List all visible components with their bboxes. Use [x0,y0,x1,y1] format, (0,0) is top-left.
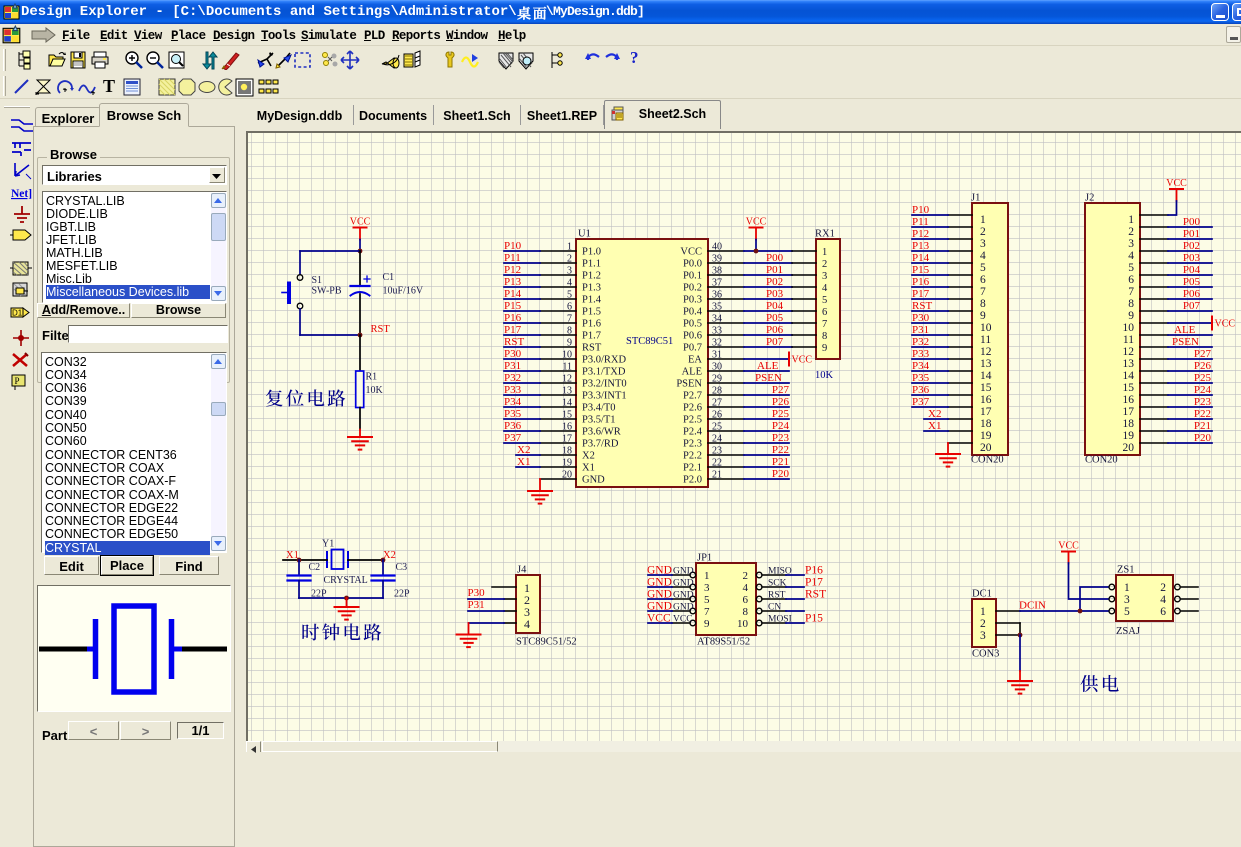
svg-text:3: 3 [822,271,827,282]
svg-text:6: 6 [1128,274,1134,286]
svg-text:P0.1: P0.1 [683,271,702,282]
svg-text:7: 7 [822,319,827,330]
svg-text:P26: P26 [772,396,790,408]
svg-text:34: 34 [712,314,722,325]
svg-text:2: 2 [822,259,827,270]
svg-text:P21: P21 [772,456,789,468]
svg-text:10: 10 [562,350,572,361]
svg-text:5: 5 [1128,262,1134,274]
svg-text:STC89C51: STC89C51 [626,336,673,347]
svg-text:10: 10 [1123,322,1135,334]
svg-text:P15: P15 [912,264,930,276]
svg-text:RST: RST [768,591,786,601]
svg-text:P22: P22 [1194,408,1211,420]
svg-text:J4: J4 [517,565,527,576]
svg-text:GND: GND [647,589,672,601]
svg-text:D1: D1 [12,309,23,318]
svg-text:P31: P31 [912,324,929,336]
svg-text:P07: P07 [766,336,784,348]
wires U1 right nets P00-P07 [744,263,792,347]
net labels J1 [912,204,941,432]
svg-text:P1.7: P1.7 [582,331,601,342]
junction clock gnd [344,596,349,601]
svg-text:P0.3: P0.3 [683,295,702,306]
svg-text:38: 38 [712,266,722,277]
svg-text:14: 14 [980,370,992,382]
wires J1 left nets [912,215,948,431]
svg-text:P00: P00 [766,252,784,264]
svg-text:P31: P31 [504,360,521,372]
svg-text:X2: X2 [517,444,530,456]
wire VCC junction to S1 top [300,250,360,252]
svg-text:P0.0: P0.0 [683,259,702,270]
svg-text:32: 32 [712,338,722,349]
svg-text:7: 7 [567,314,572,325]
svg-text:7: 7 [980,286,986,298]
svg-text:P34: P34 [504,396,522,408]
svg-text:18: 18 [562,446,572,457]
svg-text:P37: P37 [504,432,522,444]
wire C2 to C3 bottom [299,597,383,599]
switch S1 (SW-PB) [282,275,342,309]
svg-text:P11: P11 [504,252,521,264]
junction node VCC/S1/C1 [358,249,363,254]
ground (J1 pin20) [947,443,949,454]
svg-text:P14: P14 [504,288,522,300]
svg-text:5: 5 [704,594,710,606]
svg-text:16: 16 [1123,394,1135,406]
svg-text:P20: P20 [772,468,790,480]
svg-text:20: 20 [562,470,572,481]
svg-text:VCC: VCC [673,615,693,625]
svg-text:29: 29 [712,374,722,385]
svg-text:11: 11 [562,362,572,373]
connector DC1 CON3 [972,589,999,660]
svg-text:P34: P34 [912,360,930,372]
wire J4 pin2 net P30 [468,598,504,600]
svg-text:23: 23 [712,446,722,457]
svg-text:P3.2/INT0: P3.2/INT0 [582,379,627,390]
junction DCIN/ZS1 [1078,609,1083,614]
svg-text:P04: P04 [1183,264,1201,276]
svg-text:P22: P22 [772,444,789,456]
svg-text:P2.1: P2.1 [683,463,702,474]
svg-text:P1.4: P1.4 [582,295,602,306]
svg-text:39: 39 [712,254,722,265]
resistor network RX1 10K [815,229,840,382]
power VCC (supply area) [1058,541,1079,564]
svg-text:P33: P33 [504,384,522,396]
J4 pins 1-4 [492,581,530,631]
svg-text:P13: P13 [504,276,522,288]
svg-text:ALE: ALE [682,367,702,378]
svg-text:Net]: Net] [11,188,32,200]
svg-text:C3: C3 [396,562,408,573]
svg-text:AT89S51/52: AT89S51/52 [697,637,750,648]
U1 pins 40-21 (right) with numbers and names [676,242,744,486]
resistor R1 10K [356,335,384,430]
svg-text:P16: P16 [504,312,522,324]
node RST junction [358,333,363,338]
svg-text:J1: J1 [971,193,980,204]
svg-text:18: 18 [1123,418,1135,430]
svg-text:P17: P17 [805,577,823,589]
svg-text:3: 3 [567,266,572,277]
svg-text:6: 6 [567,302,572,313]
net labels U1 left [504,240,530,468]
svg-text:P11: P11 [912,216,929,228]
svg-text:P3.0/RXD: P3.0/RXD [582,355,626,366]
svg-text:P07: P07 [1183,300,1201,312]
U1 GND pin wire and ground [539,479,541,491]
capacitor C2 22P [288,560,328,600]
power VCC (J2 pin1) [1166,178,1187,201]
capacitor C1 10uF/16V [351,251,424,335]
svg-text:21: 21 [712,470,722,481]
svg-text:PSEN: PSEN [755,372,782,384]
svg-text:P33: P33 [912,348,930,360]
svg-text:13: 13 [980,358,992,370]
svg-text:P25: P25 [772,408,790,420]
ground (DC1) [1008,680,1032,682]
svg-text:5: 5 [567,290,572,301]
svg-text:18: 18 [980,418,992,430]
svg-text:7: 7 [704,606,710,618]
svg-text:RST: RST [805,589,826,601]
svg-text:20: 20 [980,442,992,454]
text 时钟电路 [302,624,319,641]
svg-text:P06: P06 [766,324,784,336]
connector J4 STC89C51/52 [516,565,577,648]
svg-text:P0.4: P0.4 [683,307,703,318]
svg-text:P03: P03 [766,288,784,300]
wire crystal to X2 node [348,559,383,561]
svg-text:GND: GND [673,567,694,577]
power VCC (reset) [350,217,371,252]
svg-text:P31: P31 [468,599,485,611]
svg-text:P30: P30 [912,312,930,324]
svg-text:GND: GND [582,475,605,486]
svg-text:8: 8 [980,298,986,310]
svg-text:JP1: JP1 [697,553,712,564]
switch ZS1 ZSAJ [1116,565,1173,638]
svg-text:P0.6: P0.6 [683,331,702,342]
svg-text:10K: 10K [366,385,384,396]
svg-text:35: 35 [712,302,722,313]
svg-text:19: 19 [562,458,572,469]
svg-text:33: 33 [712,326,722,337]
svg-text:P23: P23 [772,432,790,444]
svg-text:P06: P06 [1183,288,1201,300]
svg-text:2: 2 [567,254,572,265]
svg-text:4: 4 [524,617,530,631]
svg-text:16: 16 [562,422,572,433]
svg-text:GND: GND [673,579,694,589]
svg-text:Y1: Y1 [322,539,334,550]
svg-text:6: 6 [980,274,986,286]
svg-text:10: 10 [980,322,992,334]
svg-text:CN: CN [768,603,781,613]
svg-text:13: 13 [562,386,572,397]
svg-text:17: 17 [562,434,572,445]
svg-text:1: 1 [567,242,572,253]
svg-text:CON20: CON20 [1085,455,1118,466]
svg-text:10uF/16V: 10uF/16V [383,286,424,297]
svg-text:X2: X2 [928,408,941,420]
svg-text:P30: P30 [468,587,486,599]
ground (reset) [359,430,361,438]
J1 pins 1-20 [948,214,992,454]
svg-text:27: 27 [712,398,722,409]
svg-text:17: 17 [1123,406,1135,418]
svg-text:P16: P16 [912,276,930,288]
svg-text:RST: RST [371,324,391,335]
wire DC1 pin2 down to pin3 row [1019,623,1021,635]
svg-text:P2.6: P2.6 [683,403,702,414]
wire X1 node to crystal [283,559,327,561]
JP1 left pins 1,3,5,7,9 [672,567,710,630]
svg-text:C1: C1 [383,272,395,283]
svg-text:7: 7 [1128,286,1134,298]
svg-text:VCC: VCC [1058,541,1079,552]
svg-text:1: 1 [1128,214,1134,226]
U1 pins 1-20 (left) with numbers and names [540,242,627,486]
ZS1 pins 1,3,5 (left) [1109,582,1130,618]
svg-text:ZSAJ: ZSAJ [1116,626,1140,637]
svg-text:8: 8 [1128,298,1134,310]
svg-text:12: 12 [562,374,572,385]
svg-text:P2.0: P2.0 [683,475,702,486]
svg-text:CRYSTAL: CRYSTAL [324,575,368,586]
svg-text:P0.7: P0.7 [683,343,702,354]
power VCC (U1 pin40) [746,217,767,252]
svg-text:28: 28 [712,386,722,397]
svg-text:P17: P17 [504,324,522,336]
svg-text:ALE: ALE [1174,324,1196,336]
svg-text:P1.0: P1.0 [582,247,601,258]
svg-text:VCC: VCC [792,355,813,366]
svg-text:P10: P10 [504,240,522,252]
svg-text:P00: P00 [1183,216,1201,228]
svg-text:P02: P02 [766,276,783,288]
svg-text:P26: P26 [1194,360,1212,372]
svg-text:3: 3 [980,630,986,642]
net labels J2 P00-P07 [1183,216,1201,312]
svg-text:6: 6 [743,594,749,606]
text 复位电路 [266,389,283,406]
svg-text:RST: RST [504,336,524,348]
svg-text:3: 3 [704,582,710,594]
svg-text:8: 8 [743,606,749,618]
svg-text:9: 9 [1128,310,1134,322]
svg-text:P05: P05 [1183,276,1201,288]
svg-text:ALE: ALE [757,360,779,372]
svg-text:4: 4 [980,250,986,262]
wire J4 pin3 net P31 [468,610,504,612]
wire DCIN net DC1 pin1 to ZS1 pin5 [1020,610,1109,612]
svg-text:P05: P05 [766,312,784,324]
svg-text:22P: 22P [394,589,410,600]
svg-text:P32: P32 [912,336,929,348]
wire U1 VCC pin40 to RX1 pin1 [744,250,792,252]
svg-text:40: 40 [712,242,722,253]
svg-text:31: 31 [712,350,722,361]
svg-text:P1.1: P1.1 [582,259,601,270]
svg-text:3: 3 [1124,594,1130,606]
svg-text:1: 1 [980,214,986,226]
power VCC (J2 pin10) [1211,317,1213,330]
svg-text:P2.3: P2.3 [683,439,702,450]
JP1 right pins 2,4,6,8,10 [737,567,792,630]
svg-text:P0.5: P0.5 [683,319,702,330]
net labels J2 P27-P20 [1194,348,1212,444]
svg-text:P01: P01 [766,264,783,276]
connector J2 CON20 [1085,193,1140,466]
svg-text:RST: RST [912,300,932,312]
svg-text:13: 13 [1123,358,1135,370]
svg-text:15: 15 [1123,382,1135,394]
svg-text:J2: J2 [1085,193,1094,204]
svg-text:10: 10 [737,618,749,630]
wires JP1 left nets GND/VCC [647,565,672,625]
svg-text:37: 37 [712,278,722,289]
svg-text:16: 16 [980,394,992,406]
svg-text:RX1: RX1 [815,229,835,240]
svg-text:8: 8 [822,331,827,342]
svg-text:22: 22 [712,458,722,469]
svg-text:9: 9 [704,618,710,630]
crystal Y1 [322,539,368,587]
svg-text:PSEN: PSEN [676,379,702,390]
svg-text:25: 25 [712,422,722,433]
svg-text:GND: GND [647,565,672,577]
svg-text:17: 17 [980,406,992,418]
wires U1 left nets P10-P37 [504,251,540,467]
svg-text:C2: C2 [309,562,321,573]
svg-text:P1.6: P1.6 [582,319,601,330]
svg-text:P04: P04 [766,300,784,312]
svg-text:4: 4 [1128,250,1134,262]
svg-text:P32: P32 [504,372,521,384]
svg-text:P12: P12 [912,228,929,240]
svg-text:P24: P24 [772,420,790,432]
svg-text:P02: P02 [1183,240,1200,252]
svg-text:19: 19 [980,430,992,442]
svg-text:DCIN: DCIN [1019,600,1046,612]
ground (J4) [457,634,481,636]
svg-text:P37: P37 [912,396,930,408]
svg-text:P30: P30 [504,348,522,360]
svg-text:GND: GND [673,603,694,613]
svg-text:5: 5 [980,262,986,274]
svg-text:4: 4 [743,582,749,594]
svg-text:P27: P27 [772,384,790,396]
svg-text:X2: X2 [582,451,595,462]
svg-text:30: 30 [712,362,722,373]
IC U1 STC89C51 [576,229,708,488]
svg-text:2: 2 [980,226,986,238]
junction X2/C3 [381,558,386,563]
svg-text:P24: P24 [1194,384,1212,396]
svg-text:5: 5 [822,295,827,306]
svg-text:11: 11 [980,334,991,346]
svg-text:VCC: VCC [680,247,702,258]
svg-text:P12: P12 [504,264,521,276]
svg-text:P3.1/TXD: P3.1/TXD [582,367,626,378]
svg-text:P01: P01 [1183,228,1200,240]
svg-text:14: 14 [1123,370,1135,382]
svg-text:P2.7: P2.7 [683,391,702,402]
svg-text:P25: P25 [1194,372,1212,384]
svg-text:R1: R1 [366,372,378,383]
svg-text:VCC: VCC [1166,178,1187,189]
svg-text:2: 2 [980,618,986,630]
svg-text:4: 4 [822,283,828,294]
svg-text:P15: P15 [504,300,522,312]
svg-text:P2.5: P2.5 [683,415,702,426]
junction VCC/pin40 [754,249,759,254]
svg-text:14: 14 [562,398,572,409]
svg-text:VCC: VCC [746,217,767,228]
svg-text:VCC: VCC [647,613,671,625]
svg-text:15: 15 [562,410,572,421]
svg-text:11: 11 [1123,334,1134,346]
svg-text:X1: X1 [582,463,595,474]
svg-text:8: 8 [567,326,572,337]
svg-text:12: 12 [1123,346,1135,358]
svg-text:P3.4/T0: P3.4/T0 [582,403,616,414]
svg-text:3: 3 [980,238,986,250]
svg-text:4: 4 [567,278,572,289]
wires J2 right nets [1168,227,1212,443]
svg-text:P36: P36 [504,420,522,432]
svg-text:2: 2 [1160,582,1166,594]
wire DC1 gnd node down [1019,635,1021,671]
svg-text:P21: P21 [1194,420,1211,432]
svg-text:CON20: CON20 [971,455,1004,466]
wires JP1 right nets [786,565,826,625]
svg-text:P17: P17 [912,288,930,300]
svg-text:2: 2 [1128,226,1134,238]
svg-text:RST: RST [582,343,602,354]
svg-text:GND: GND [647,577,672,589]
svg-text:1: 1 [822,247,827,258]
svg-text:3: 3 [1128,238,1134,250]
svg-text:P14: P14 [912,252,930,264]
svg-text:9: 9 [980,310,986,322]
svg-text:DC1: DC1 [972,589,992,600]
ZS1 pins 2,4,6 (right) [1160,582,1198,618]
svg-text:P16: P16 [805,565,823,577]
svg-text:1: 1 [980,606,986,618]
svg-text:4: 4 [1160,594,1166,606]
svg-text:GND: GND [673,591,694,601]
svg-text:10K: 10K [815,370,834,381]
svg-text:P: P [15,376,20,386]
junction DC1 gnd node [1018,633,1023,638]
net labels P27-P20 [772,384,790,480]
svg-text:P3.5/T1: P3.5/T1 [582,415,616,426]
wire ZS1 pin1 to DCIN junction [1080,587,1109,611]
connector JP1 AT89S51/52 [696,553,756,648]
capacitor C3 22P [372,560,411,600]
svg-text:24: 24 [712,434,722,445]
ground (clock) [346,598,348,607]
svg-text:SW-PB: SW-PB [312,286,342,297]
svg-text:U1: U1 [578,229,591,240]
svg-text:GND: GND [647,601,672,613]
svg-text:2: 2 [743,570,749,582]
